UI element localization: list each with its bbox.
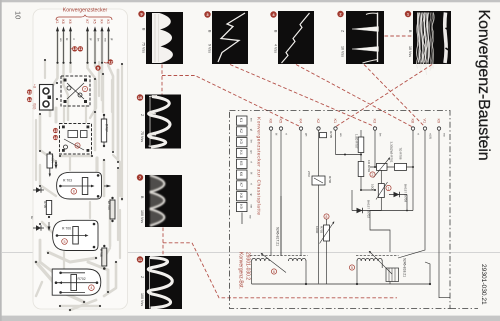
dashed link oscillogram9 branch to terminal K2 [162, 76, 301, 128]
svg-text:K4: K4 [100, 20, 104, 24]
terminal K5 [279, 127, 282, 130]
coil L704 footprint [60, 124, 92, 155]
testpoint 11 [78, 46, 84, 51]
resistor R707 (pcb) [101, 114, 108, 147]
terminal K2 [317, 127, 320, 130]
svg-text:V1: V1 [423, 119, 427, 124]
svg-text:R703: R703 [320, 226, 324, 234]
connector pin K6 [69, 28, 71, 64]
wire from K4 [300, 130, 302, 256]
oscillogram 11 (waveform photo) [145, 256, 182, 309]
oscillogram 7 (waveform photo) [145, 175, 182, 227]
svg-text:100 Vss: 100 Vss [140, 210, 144, 223]
connector pin K5 [94, 28, 96, 64]
svg-text:ws: ws [59, 38, 63, 42]
svg-text:Gr: Gr [30, 216, 34, 219]
svg-text:K3: K3 [239, 139, 243, 143]
svg-text:+U: +U [33, 84, 37, 89]
wire from K5 [280, 130, 282, 256]
wire from K2 [318, 130, 320, 283]
wire junction [336, 154, 362, 156]
resistor R708 (schematic) [395, 163, 407, 170]
diode Dr709 [389, 194, 407, 196]
terminal K4 [299, 127, 302, 130]
svg-text:27Ω: 27Ω [307, 171, 311, 177]
svg-text:rt(U): rt(U) [33, 103, 37, 109]
svg-text:rt: rt [285, 133, 289, 135]
connector pin K3 [237, 138, 248, 147]
resistor R708 (pcb) [99, 245, 107, 270]
terminal K8 [411, 127, 414, 130]
terminal K3 [373, 127, 376, 130]
testpoint 5 (schematic) [349, 265, 354, 270]
svg-text:bl: bl [250, 172, 254, 175]
wire bus [351, 190, 353, 211]
dashed link oscillogram9 to oscillogram10 [161, 65, 163, 95]
svg-text:10: 10 [138, 95, 143, 100]
connector pin K7 [237, 181, 248, 190]
wire K8 down [370, 167, 413, 211]
testpoint 1 [386, 185, 391, 190]
svg-text:9246-818.21: 9246-818.21 [403, 258, 407, 277]
svg-text:1,8Ω R707: 1,8Ω R707 [355, 134, 359, 149]
dashed link oscillogram2 to oscillogram1 [385, 35, 413, 37]
wire to testpoint 12 [104, 62, 109, 63]
potentiometer U801 [380, 170, 382, 183]
svg-text:2: 2 [372, 173, 374, 177]
svg-text:10 Vss: 10 Vss [341, 46, 345, 57]
transformer 9246-818.21 [356, 251, 399, 284]
svg-text:BA157 Dr709: BA157 Dr709 [404, 184, 408, 202]
dashed link oscillogram4 to terminal K8 [296, 65, 413, 128]
terminal K6 [269, 127, 272, 130]
svg-text:gr: gr [89, 38, 93, 41]
testpoint 8 [71, 189, 77, 195]
potentiometer R703 (pcb) [57, 172, 102, 199]
svg-text:K6: K6 [269, 119, 273, 124]
svg-text:rt(U): rt(U) [429, 133, 433, 139]
testpoint 4 [89, 285, 95, 291]
potentiometer R700 (pcb) [53, 220, 98, 250]
svg-text:R707: R707 [105, 124, 109, 132]
svg-text:K1: K1 [239, 118, 243, 122]
brace [56, 15, 112, 20]
svg-text:100Ω: 100Ω [315, 226, 319, 234]
svg-text:R702: R702 [78, 277, 86, 281]
connector pin K5 [237, 159, 248, 168]
svg-text:R705: R705 [43, 201, 47, 209]
choke Dr703 (pcb) [107, 197, 115, 222]
svg-text:R 700: R 700 [62, 227, 71, 231]
testpoint 8 [324, 214, 329, 219]
svg-text:14: 14 [27, 97, 32, 102]
testpoint 7 [82, 86, 87, 91]
svg-text:K7: K7 [85, 20, 89, 24]
svg-text:13: 13 [27, 89, 32, 94]
connector pin K8 [62, 28, 64, 64]
svg-text:gl: gl [250, 129, 254, 132]
input connector [40, 85, 54, 111]
oscillogram 1 (waveform photo) [413, 11, 451, 75]
svg-text:9 Vss: 9 Vss [208, 44, 212, 53]
svg-text:R 703: R 703 [63, 179, 72, 183]
svg-text:K8: K8 [61, 20, 65, 24]
svg-text:Konvergenzstecker zur Chassisp: Konvergenzstecker zur Chassisplatte [256, 117, 262, 215]
potentiometer R701 [377, 163, 388, 170]
page bottom edge bar [0, 316, 500, 321]
svg-text:R705: R705 [329, 131, 333, 139]
svg-text:75 Vss: 75 Vss [142, 42, 146, 53]
svg-text:K3: K3 [106, 20, 110, 24]
testpoint 2 [370, 172, 375, 177]
testpoint 16 [53, 135, 59, 140]
page top edge bar [0, 0, 500, 2]
svg-text:K6: K6 [68, 20, 72, 24]
connector pin K2 [237, 127, 248, 136]
wire from K8 [412, 130, 414, 167]
module boundary bottom extension (dash-dot) [450, 308, 478, 310]
svg-text:7Ω R708: 7Ω R708 [399, 148, 403, 160]
svg-text:ws: ws [250, 118, 254, 122]
dashed link oscillogram2 to terminal V1 [364, 65, 425, 127]
svg-text:K2: K2 [316, 119, 320, 124]
svg-text:5: 5 [64, 240, 66, 244]
wire arrows [48, 160, 110, 230]
svg-text:R708: R708 [99, 249, 103, 257]
svg-text:10Ω: 10Ω [371, 184, 375, 190]
svg-text:gr: gr [250, 194, 254, 197]
solder pads [35, 59, 123, 311]
oscillogram 2 (waveform photo) [346, 11, 384, 64]
svg-text:K6: K6 [239, 172, 243, 176]
svg-text:29301-030.21: 29301-030.21 [480, 264, 487, 305]
svg-text:15: 15 [53, 128, 58, 133]
page left edge bar [0, 0, 2, 321]
dashed link oscillogram3 to terminal K3 [230, 65, 375, 127]
svg-text:K5: K5 [279, 119, 283, 124]
testpoint 5 [62, 239, 68, 245]
ground rail wire [252, 262, 430, 284]
connector pin K8 [237, 192, 248, 201]
svg-text:75 Vss: 75 Vss [140, 131, 144, 142]
wire to testpoint 10 [71, 48, 73, 50]
svg-text:gn: gn [250, 150, 254, 154]
wire from V1 [398, 130, 425, 258]
oscillogram 4 (waveform photo) [278, 11, 314, 64]
svg-text:ws: ws [339, 133, 343, 137]
svg-text:R704: R704 [51, 156, 55, 164]
svg-text:rt: rt [250, 161, 254, 163]
svg-text:bn: bn [379, 133, 383, 137]
testpoint 13 [27, 89, 33, 94]
svg-text:12: 12 [108, 59, 113, 64]
svg-text:rt: rt [72, 38, 76, 40]
svg-text:K4: K4 [239, 150, 243, 154]
svg-text:3,3Ω(2W) R701: 3,3Ω(2W) R701 [390, 142, 394, 163]
svg-text:10 Vss: 10 Vss [408, 46, 412, 57]
oscillogram 3 (waveform photo) [212, 11, 248, 64]
svg-text:K5: K5 [93, 20, 97, 24]
svg-text:K8: K8 [411, 119, 415, 124]
svg-text:rt: rt [417, 133, 421, 135]
svg-text:5: 5 [351, 266, 353, 270]
svg-text:rt: rt [250, 183, 254, 185]
svg-text:8: 8 [73, 190, 75, 194]
svg-text:Dr703: Dr703 [107, 201, 111, 210]
wire from K9 [439, 130, 450, 298]
resistor R709 [358, 162, 364, 177]
wire from K6 [270, 130, 272, 256]
resistor R704 (pcb) [47, 151, 55, 177]
oscillogram 10 (waveform photo) [145, 95, 181, 149]
PCB copper traces [36, 33, 122, 310]
connector pin K9 [237, 202, 248, 211]
svg-text:Konvergenzstecker: Konvergenzstecker [63, 8, 108, 14]
connector pin K4 [101, 28, 103, 64]
oscillogram 9 (waveform photo) [146, 12, 183, 64]
svg-text:1Ω R709: 1Ω R709 [367, 160, 371, 172]
connector pin K3 [107, 28, 109, 64]
terminal V1 [423, 127, 426, 130]
connector pin K7 [86, 28, 88, 64]
svg-text:100 Vss: 100 Vss [140, 293, 144, 306]
svg-text:bl: bl [275, 133, 279, 136]
svg-text:bl: bl [65, 38, 69, 41]
svg-text:4 Vss: 4 Vss [274, 44, 278, 53]
diode Dr702 [352, 210, 370, 212]
diode Gr701 (pcb) [33, 187, 44, 192]
wire from K1 [335, 130, 337, 154]
PCB board outline [33, 9, 128, 309]
svg-text:K8: K8 [239, 193, 243, 197]
svg-text:R706: R706 [328, 176, 332, 184]
page fold line [2, 252, 500, 254]
svg-text:K1: K1 [55, 20, 59, 24]
svg-text:9246-817.21: 9246-817.21 [276, 227, 280, 246]
svg-text:Konvergenz-Bst.: Konvergenz-Bst. [238, 252, 244, 289]
resistor R706 [312, 176, 325, 185]
svg-text:K9: K9 [437, 119, 441, 124]
svg-text:Konvergenz-Baustein: Konvergenz-Baustein [475, 10, 492, 161]
testpoint 10 [72, 46, 78, 51]
testpoint 14 [27, 97, 33, 102]
svg-text:bn: bn [96, 38, 100, 42]
coil L703 footprint [61, 76, 90, 106]
svg-text:10: 10 [14, 11, 23, 19]
diode Gr702 (pcb) [30, 216, 44, 231]
svg-text:K3: K3 [373, 119, 377, 124]
svg-text:gn: gn [305, 133, 309, 137]
connector pin K1 [237, 116, 248, 125]
testpoint 15 [53, 128, 59, 133]
resistor R705 (schematic) [320, 133, 327, 138]
svg-text:6: 6 [77, 144, 79, 148]
svg-text:K7: K7 [239, 183, 243, 187]
testpoint 9 [95, 65, 100, 70]
wire from K3 [374, 130, 376, 155]
dashed link oscillogram1 to terminal K1 [336, 65, 432, 127]
testpoint 12 [108, 59, 114, 64]
terminal K1 [334, 127, 337, 130]
connector pin K1 [56, 28, 58, 64]
wire sw from K9 [241, 213, 243, 225]
svg-text:K4: K4 [299, 119, 303, 124]
module boundary (dash-dot) [230, 111, 451, 309]
svg-text:4: 4 [90, 286, 92, 290]
svg-text:16: 16 [53, 135, 58, 140]
svg-text:1: 1 [388, 186, 390, 190]
svg-text:7: 7 [84, 87, 86, 91]
connector pin K4 [237, 148, 248, 157]
connector pin K6 [237, 170, 248, 179]
testpoint 6 [75, 143, 80, 148]
svg-text:K2: K2 [239, 129, 243, 133]
transformer 9246-817.21 [250, 253, 308, 284]
svg-text:K1: K1 [333, 119, 337, 124]
svg-text:10: 10 [72, 46, 77, 51]
dashed link oscillogram7 to oscillogram11 and schematic [162, 228, 164, 256]
testpoint 6 (schematic) [271, 269, 276, 274]
terminal K9 [437, 127, 440, 130]
resistor R707 (schematic) [360, 130, 362, 137]
svg-text:K9: K9 [239, 204, 243, 208]
svg-text:6: 6 [273, 270, 275, 274]
svg-text:gl: gl [110, 38, 114, 41]
svg-text:8: 8 [326, 215, 328, 219]
svg-text:29301-030.2: 29301-030.2 [245, 252, 251, 280]
svg-text:K5: K5 [239, 161, 243, 165]
svg-text:bn: bn [250, 140, 254, 144]
resistor R705 (pcb) [43, 201, 52, 219]
wire K3 to R701 [370, 155, 413, 167]
potentiometer R703 (schematic) [326, 219, 328, 225]
potentiometer R702 (pcb) [52, 269, 101, 295]
